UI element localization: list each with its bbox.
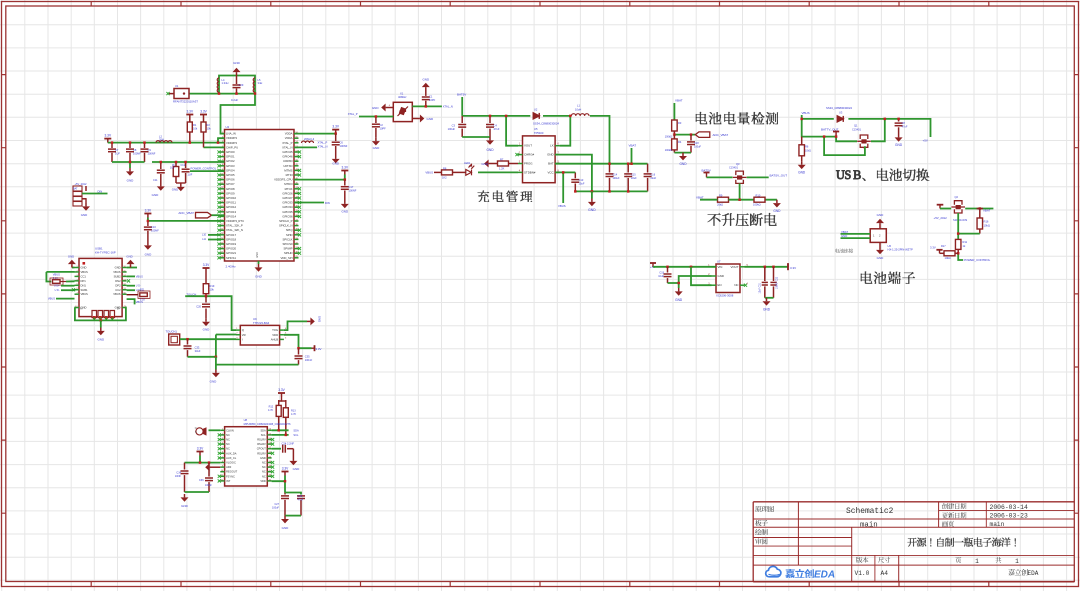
wire C3 C4 gnd rail [462,136,490,138]
svg-text:100kΩ: 100kΩ [665,135,672,138]
svg-text:ADC_VBAT: ADC_VBAT [713,133,729,137]
svg-text:GND: GND [588,208,596,212]
wire VCC down VBUS [555,172,563,203]
svg-text:U4: U4 [226,125,230,129]
svg-text:GND: GND [877,213,885,217]
svg-text:100NF: 100NF [349,189,357,193]
wire charge top rail [462,115,530,117]
svg-text:RFANT3220110A3T: RFANT3220110A3T [173,100,198,104]
svg-text:SCL: SCL [293,433,299,437]
svg-text:GND: GND [126,255,132,259]
svg-text:GPIO34: GPIO34 [282,205,293,209]
svg-text:2006-03-23: 2006-03-23 [990,513,1029,520]
power flag 3.3V VDD imu [282,472,289,476]
svg-text:TOUCH1: TOUCH1 [166,330,178,334]
svg-text:MTMS: MTMS [284,168,292,172]
svg-text:50: 50 [269,456,271,458]
svg-text:2: 2 [222,433,223,435]
wire STDBN row [478,171,518,173]
resistor R11 [955,239,961,249]
svg-text:C6: C6 [340,141,344,145]
ground LDO input [678,283,680,288]
svg-text:R4: R4 [678,140,682,144]
svg-text:VDD3P3: VDD3P3 [226,136,237,140]
svg-text:U0RXD: U0RXD [283,159,292,163]
svg-text:54: 54 [269,438,271,440]
svg-text:10NF: 10NF [175,475,182,478]
svg-text:GND: GND [422,78,430,82]
svg-text:100uF: 100uF [272,507,280,510]
svg-text:55: 55 [269,433,271,435]
svg-text:47uF: 47uF [494,127,500,131]
wire battery GND pin [841,237,871,239]
ground LDO out [763,298,771,306]
wire gauge gnd rail [674,152,691,154]
resistor R4 [672,139,678,150]
capacitor C20 [205,296,207,302]
ground imu left [181,494,189,502]
svg-text:GND: GND [798,171,806,175]
svg-text:GPIO3: GPIO3 [226,164,235,168]
svg-text:PROG: PROG [524,162,533,166]
svg-text:GND: GND [877,256,885,260]
svg-text:AUX_DA: AUX_DA [226,451,237,455]
svg-text:GND: GND [260,456,266,460]
svg-text:C24 2.2NF: C24 2.2NF [282,442,295,446]
svg-text:8: 8 [222,461,223,463]
svg-text:GPIO26: GPIO26 [282,191,293,195]
ground under C11 [157,183,165,191]
resistor R2 [200,115,207,119]
svg-text:GND: GND [115,266,121,270]
svg-text:XTAL_32K_N: XTAL_32K_N [226,228,243,232]
svg-text:GND: GND [255,275,263,279]
svg-text:U D-: U D- [136,285,141,288]
svg-text:VBUS: VBUS [53,273,60,277]
svg-text:R21: R21 [140,288,145,291]
svg-text:4.7K: 4.7K [291,413,296,416]
wire BT1 DIN [82,193,108,195]
svg-text:3.3V: 3.3V [105,134,112,138]
svg-text:DIN: DIN [98,189,103,193]
svg-text:C20: C20 [196,305,201,309]
svg-text:GPIO6: GPIO6 [226,178,235,182]
svg-text:3: 3 [76,275,77,277]
svg-text:3.3V: 3.3V [790,266,796,270]
IMU U8 MPU6050 box [225,427,268,486]
svg-text:U6: U6 [888,244,892,248]
resistor R22 vertical small [173,167,179,177]
svg-text:C29: C29 [239,83,244,87]
svg-text:1: 1 [76,266,77,268]
svg-text:TP5400: TP5400 [534,131,544,135]
svg-text:3.3V: 3.3V [278,388,285,392]
svg-text:SPIHD: SPIHD [284,251,293,255]
wire matching network top rail [219,76,255,94]
svg-text:SPICS0: SPICS0 [283,242,293,246]
ground charge input caps [486,137,494,145]
svg-text:100uF: 100uF [448,127,456,131]
svg-text:CLKIN: CLKIN [226,428,234,432]
svg-text:O: O [195,428,197,430]
capacitor C27 [284,493,286,495]
capacitor C34 [184,463,186,470]
wire touch gnd rail [188,356,216,358]
resistor R19 [205,272,207,284]
ground under C2 [372,138,380,146]
svg-text:SPICS1: SPICS1 [226,256,236,260]
svg-text:GPIO46: GPIO46 [282,155,293,159]
svg-text:XTAL_N: XTAL_N [318,145,328,149]
arrow AD0 [205,463,213,471]
inductor L2 [156,141,172,143]
svg-text:main: main [860,522,878,530]
svg-text:R11: R11 [963,240,968,244]
svg-text:55: 55 [124,270,126,272]
svg-text:MTCK: MTCK [285,187,293,191]
page numbers [955,557,961,563]
inductor L4 [217,78,219,92]
svg-text:GPIO35: GPIO35 [282,210,293,214]
svg-text:2.4GHz: 2.4GHz [226,265,237,269]
ground touch bottom [215,365,217,370]
wire VDD right [284,335,312,348]
svg-text:XTAL_N: XTAL_N [282,145,292,149]
svg-text:GPIO45: GPIO45 [282,150,293,154]
section title no boost power off [708,213,777,226]
svg-text:VBUS: VBUS [48,297,55,301]
power flag +5V_2012 [937,205,944,209]
svg-text:1UF: 1UF [115,152,120,156]
resistor R21 CC2 [127,294,138,296]
svg-text:1.3nH: 1.3nH [222,81,229,85]
touch IC U9 TTP223 box [240,325,279,345]
power flag 3.3V LDO out [787,263,789,270]
svg-text:GND: GND [675,298,683,302]
svg-text:SPICLK_N: SPICLK_N [279,224,293,228]
wire Q1 drain to +5V rail [871,119,885,141]
svg-text:+5V_2012: +5V_2012 [934,216,948,220]
svg-text:GND: GND [233,61,241,65]
capacitor C33 [187,339,189,344]
svg-text:54: 54 [124,275,126,277]
wires DP1 DN1 labels [61,285,75,287]
svg-text:100NF: 100NF [340,144,348,148]
svg-text:3.3V: 3.3V [203,263,210,267]
svg-text:C7: C7 [115,148,119,152]
svg-text:GPIO0: GPIO0 [226,150,235,154]
svg-text:U5: U5 [534,127,538,131]
svg-text:2006-03-14: 2006-03-14 [990,504,1029,511]
svg-text:XC6206-3008: XC6206-3008 [716,294,734,298]
svg-text:C1: C1 [429,95,433,99]
wire VBUS right [127,275,135,277]
svg-text:53: 53 [269,443,271,445]
resistor R1 [186,115,193,119]
svg-text:GND: GND [152,193,160,197]
wire TOG to gnd right [284,321,307,330]
svg-text:STDBN#: STDBN# [524,170,536,174]
wire 3.3V rail to MCU VDD3P3 [108,142,225,144]
power flag 3.3V left rail [104,139,111,143]
svg-text:1: 1 [975,558,979,565]
ground battery terminal bottom [879,242,881,246]
battery connector U6 [870,229,886,243]
svg-text:U7: U7 [717,260,721,264]
section title battery terminal [861,271,915,283]
svg-text:R7: R7 [500,158,504,162]
svg-text:3.3V: 3.3V [187,110,194,114]
svg-text:9: 9 [222,466,223,468]
svg-text:GPIO36: GPIO36 [282,214,293,218]
svg-text:GND: GND [81,213,87,217]
ground under R6 [798,161,806,169]
antenna U1 [174,89,189,99]
svg-text:NC: NC [226,447,230,451]
svg-text:47uF: 47uF [298,499,304,502]
svg-text:GPIO8: GPIO8 [226,187,235,191]
power flag 3.3V pullups [278,393,285,397]
svg-text:22uF: 22uF [631,177,637,180]
svg-text:VDD: VDD [272,333,278,337]
svg-text:R6: R6 [805,145,809,149]
touch pad TOUCH1 [169,334,180,345]
svg-text:GND: GND [145,253,153,257]
svg-text:NC: NC [734,283,738,287]
net port ADC_VBAT gauge [695,132,710,138]
ground crystal pin2 [417,115,425,123]
capacitor C35 [298,348,300,354]
svg-text:5: 5 [222,447,223,449]
capacitor C4 [489,116,491,123]
svg-text:CHRG#: CHRG# [524,153,535,157]
wire +5V_2012 to Q2 [940,208,951,210]
svg-text:R2: R2 [207,123,211,127]
svg-text:GPIO12: GPIO12 [226,205,237,209]
svg-text:0.2uF: 0.2uF [231,98,238,102]
svg-text:GPIO11: GPIO11 [226,201,236,205]
capacitor C1 [425,101,427,107]
svg-text:DIN: DIN [325,201,330,205]
wire Q2 gate down [957,213,959,239]
svg-text:GND: GND [486,148,494,152]
svg-text:10kΩ: 10kΩ [984,224,990,228]
svg-text:GPIO4: GPIO4 [226,168,235,172]
wire switch top rail [802,115,834,119]
svg-text:100NF C22: 100NF C22 [776,276,779,289]
svg-text:53: 53 [124,279,126,281]
svg-text:GPIO7: GPIO7 [226,182,235,186]
svg-text:CJ3401: CJ3401 [729,166,738,170]
svg-text:SS34_C8680030024: SS34_C8680030024 [533,122,559,126]
svg-text:VR: VR [242,333,246,337]
wire LDO out caps gnd [765,297,774,299]
ground PROG left [484,160,492,168]
svg-text:ADC_VBAT: ADC_VBAT [178,211,194,215]
svg-text:52: 52 [269,447,271,449]
svg-text:AD0: AD0 [226,465,232,469]
ground above C29 [233,68,241,76]
svg-text:Q1: Q1 [854,124,858,128]
ground under C17 [341,201,349,209]
resistor R12 [276,405,281,416]
svg-text:10uF C21: 10uF C21 [759,282,762,293]
svg-text:S: S [845,168,852,182]
svg-text:GND: GND [256,252,259,258]
svg-text:GND: GND [481,162,489,166]
wire 3.3V to VDD3P3_RTC [148,218,225,221]
wire LX up [560,116,571,146]
svg-text:VBUS: VBUS [136,300,143,304]
svg-text:100NF: 100NF [151,229,159,233]
svg-text:GND: GND [181,504,189,508]
USB connector USB1 box [79,258,122,316]
svg-text:GPIO18: GPIO18 [226,237,237,241]
svg-text:GND: GND [81,266,87,270]
svg-text:1.2K: 1.2K [499,166,505,170]
svg-text:DN2: DN2 [115,279,121,283]
svg-text:GND: GND [68,255,74,259]
svg-text:50: 50 [124,293,126,295]
svg-text:VBAT: VBAT [629,144,637,148]
EDA logo cloud [766,566,781,576]
svg-text:RSLRV: RSLRV [257,451,266,455]
svg-text:GND: GND [127,179,135,183]
ground crystal pin4 [381,104,389,112]
transistor Q1 PMOS [857,135,871,148]
svg-text:100kΩ: 100kΩ [753,203,761,207]
svg-text:SPICLK: SPICLK [283,237,293,241]
transistor Q3 [733,171,747,184]
svg-text:NC: NC [262,461,266,465]
wire R16 to gate node [958,233,980,235]
svg-text:C36: C36 [199,479,204,482]
wire network to MCU LNA_IN [221,94,256,134]
svg-text:6: 6 [76,288,77,290]
svg-text:C9: C9 [148,148,152,152]
net port ADC_VBAT to GPIO14 [196,212,212,218]
charge IC U5 TP5400 [523,136,556,183]
capacitor C6 [335,134,337,141]
resistor R7 PROG [498,161,509,166]
capacitor C28 [285,493,301,495]
svg-text:10PF: 10PF [380,127,387,131]
svg-text:GPIO19: GPIO19 [226,242,237,246]
svg-text:GPIO20: GPIO20 [226,247,237,251]
wire Q3 gate down [739,183,741,199]
svg-text:GPIO21: GPIO21 [226,251,237,255]
capacitor C2 [375,117,377,124]
svg-text:15uF: 15uF [579,182,585,186]
resistor R10 [754,197,765,202]
svg-text:GND: GND [282,526,290,530]
svg-text:XTAL_P: XTAL_P [348,112,358,116]
svg-text:POWER_CONTROL: POWER_CONTROL [964,258,991,262]
svg-text:SDA: SDA [260,428,266,432]
svg-text:GND: GND [293,467,301,471]
svg-text:GND: GND [172,188,178,192]
svg-text:40MHz: 40MHz [398,95,407,99]
svg-text:46: 46 [269,475,271,477]
wire TOUCH1 to TTP223 [180,338,236,340]
svg-text:3.3V: 3.3V [316,347,322,351]
capacitor C13 [574,172,576,178]
capacitor C11 [160,162,162,169]
capacitor C10 [147,221,149,226]
ground above C1 [422,83,430,91]
svg-text:GND: GND [203,328,211,332]
svg-text:3.3V: 3.3V [342,166,349,170]
svg-text:+5V: +5V [923,139,928,143]
wire VDD3P3 pin2 stub [218,138,225,142]
svg-text:C12: C12 [181,164,186,167]
svg-text:4: 4 [76,279,77,281]
svg-text:GND: GND [332,162,340,166]
wire Q3 to BATSV_OUT [747,176,769,178]
LED1 charge indicator [466,164,475,176]
svg-text:R1: R1 [193,123,197,127]
svg-text:U3: U3 [839,111,843,115]
svg-text:10: 10 [221,470,223,472]
svg-text:CC2: CC2 [115,288,121,292]
inductor L1 [571,114,589,116]
svg-text:VDD_SPI: VDD_SPI [281,256,293,260]
svg-text:GND: GND [895,143,903,147]
svg-text:U0TXD: U0TXD [283,164,292,168]
svg-text:GND: GND [841,234,847,238]
svg-text:GND: GND [341,210,349,214]
resistor R17 [944,251,955,256]
wire XTAL_N from crystal pin3 [412,105,442,107]
svg-text:4: 4 [222,443,223,445]
svg-text:VLOGIC: VLOGIC [226,461,236,465]
svg-text:+5V_2012: +5V_2012 [75,182,87,186]
USB shield pins [92,311,115,318]
wire antenna to matching network [189,93,255,95]
ground USB top-left [72,267,75,269]
svg-text:NC: NC [226,442,230,446]
svg-text:4.7K: 4.7K [268,409,273,412]
svg-text:L10: L10 [202,234,207,237]
capacitor C15 [627,164,629,173]
svg-text:GPIO9: GPIO9 [226,191,235,195]
svg-text:TOG: TOG [272,328,278,332]
power flag 3.3V R17 [936,250,942,254]
svg-text:LX: LX [550,144,554,148]
battery pad BT1 [73,186,82,206]
capacitor C3 [461,116,463,123]
ground under MCU [258,261,260,264]
svg-text:XTAL_P: XTAL_P [282,141,292,145]
svg-text:CC1: CC1 [81,274,87,278]
svg-text:26NH L3: 26NH L3 [304,137,315,141]
wire R11 to POWER_CONTROL [958,253,963,260]
svg-text:VBUS: VBUS [558,204,566,208]
svg-text:45: 45 [269,479,271,481]
capacitor C7 [111,143,113,148]
svg-text:GND: GND [318,316,322,322]
svg-text:3.3V: 3.3V [282,467,289,471]
wire touch node [185,296,236,330]
capacitor C17 [344,180,346,186]
svg-text:100kΩ: 100kΩ [665,149,672,152]
svg-text:L11: L11 [202,238,206,241]
ground under C20 [202,318,210,326]
section title battery gauge [696,112,778,124]
svg-text:12: 12 [221,479,223,481]
svg-text:1K2: 1K2 [442,175,447,179]
svg-text:3.3V: 3.3V [332,125,339,129]
